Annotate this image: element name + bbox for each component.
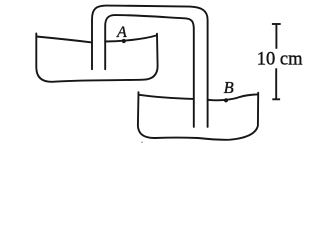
vessel 2 (lower-right container) outline [138,92,258,140]
siphon tube outer wall [92,6,208,127]
scale bar vertical line lower segment [275,68,277,98]
svg-text:cm: cm [280,49,303,69]
scale bar bottom tick [272,98,280,100]
svg-text:B: B [224,78,234,97]
scale bar top tick [272,23,281,25]
vessel 1 water surface line, right of tube, through point A [105,35,156,41]
scale bar vertical line upper segment [275,25,277,49]
point B dot [224,98,228,102]
vessel 2 water surface line, left of tube [139,95,193,99]
svg-text:A: A [116,24,127,41]
svg-text:10: 10 [257,49,276,69]
vessel 2 water surface line, right of tube, through point B [208,94,258,100]
vessel 1 (upper-left container) outline [36,33,157,81]
vessel 1 water surface line, left of tube [37,37,92,43]
siphon tube inner wall [105,15,194,127]
paper speck [141,142,143,144]
point A dot [122,39,126,43]
